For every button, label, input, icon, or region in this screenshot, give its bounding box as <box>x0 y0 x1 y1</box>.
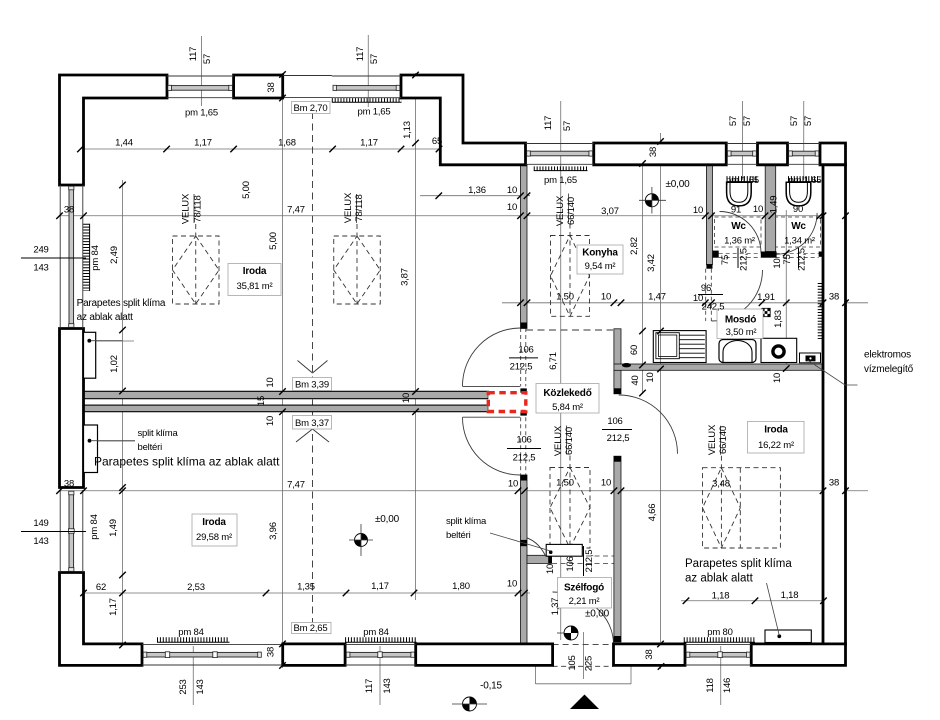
svg-text:106: 106 <box>518 345 533 356</box>
svg-text:Bm 2,65: Bm 2,65 <box>294 623 328 634</box>
svg-text:Wc: Wc <box>731 221 746 232</box>
svg-text:212,5: 212,5 <box>510 362 533 373</box>
svg-text:78/118: 78/118 <box>354 194 365 221</box>
svg-text:1,17: 1,17 <box>360 138 378 149</box>
svg-text:pm 1,65: pm 1,65 <box>185 108 218 119</box>
svg-text:1,44: 1,44 <box>115 138 133 149</box>
svg-text:1,18: 1,18 <box>712 591 730 602</box>
svg-text:143: 143 <box>33 263 48 274</box>
svg-text:pm 84: pm 84 <box>178 627 203 638</box>
svg-text:Bm 3,37: Bm 3,37 <box>295 418 329 429</box>
svg-text:VELUX: VELUX <box>707 424 718 455</box>
svg-text:1,47: 1,47 <box>648 292 666 303</box>
svg-text:Közlekedő: Közlekedő <box>543 388 591 399</box>
svg-text:106: 106 <box>516 435 531 446</box>
svg-text:90: 90 <box>793 204 803 215</box>
svg-text:Mosdó: Mosdó <box>725 315 756 326</box>
svg-text:212,5: 212,5 <box>513 453 536 464</box>
svg-text:elektromos: elektromos <box>864 350 911 361</box>
svg-text:1,83: 1,83 <box>773 310 784 328</box>
svg-text:Iroda: Iroda <box>764 425 788 436</box>
svg-text:60: 60 <box>629 345 640 355</box>
svg-text:15: 15 <box>256 396 267 406</box>
svg-text:beltéri: beltéri <box>446 530 471 541</box>
svg-text:10: 10 <box>507 185 517 196</box>
svg-text:10: 10 <box>601 478 611 489</box>
svg-text:57: 57 <box>728 116 739 126</box>
svg-text:Parapetes split klíma: Parapetes split klíma <box>77 298 166 309</box>
svg-text:65: 65 <box>432 136 442 147</box>
svg-text:1,80: 1,80 <box>452 581 470 592</box>
svg-text:1,50: 1,50 <box>556 478 574 489</box>
svg-text:38: 38 <box>266 82 277 92</box>
svg-text:249: 249 <box>33 245 48 256</box>
svg-text:3,96: 3,96 <box>268 522 279 540</box>
svg-text:6,71: 6,71 <box>548 352 559 370</box>
svg-text:1,17: 1,17 <box>108 598 119 616</box>
svg-text:10: 10 <box>508 479 518 490</box>
svg-text:66/140: 66/140 <box>564 427 575 455</box>
svg-text:106: 106 <box>565 556 576 571</box>
svg-text:16,22 m²: 16,22 m² <box>758 440 794 451</box>
svg-text:10: 10 <box>645 372 656 382</box>
svg-text:10: 10 <box>265 377 276 387</box>
svg-text:10: 10 <box>753 204 763 215</box>
svg-text:29,58 m²: 29,58 m² <box>196 532 232 543</box>
svg-text:2,53: 2,53 <box>187 582 205 593</box>
svg-text:pm 84: pm 84 <box>89 514 100 539</box>
svg-text:10: 10 <box>693 293 703 304</box>
svg-text:pm 1,65: pm 1,65 <box>789 175 822 186</box>
svg-text:40: 40 <box>630 375 641 385</box>
svg-text:VELUX: VELUX <box>553 425 564 456</box>
svg-text:vízmelegítő: vízmelegítő <box>864 364 914 375</box>
svg-text:10: 10 <box>772 373 783 383</box>
svg-text:1,49: 1,49 <box>108 519 119 537</box>
svg-text:149: 149 <box>33 518 48 529</box>
svg-text:Iroda: Iroda <box>202 517 226 528</box>
svg-text:1,17: 1,17 <box>194 138 212 149</box>
svg-text:57: 57 <box>742 116 753 126</box>
svg-text:7,47: 7,47 <box>287 205 305 216</box>
svg-text:1,35: 1,35 <box>297 582 315 593</box>
svg-text:10: 10 <box>265 416 276 426</box>
svg-text:Szélfogó: Szélfogó <box>564 583 604 594</box>
svg-text:1,49: 1,49 <box>769 196 780 214</box>
svg-text:10: 10 <box>601 292 611 303</box>
svg-text:pm 1,65: pm 1,65 <box>358 107 391 118</box>
svg-text:38: 38 <box>266 647 277 657</box>
svg-text:pm 80: pm 80 <box>707 627 732 638</box>
svg-text:split klíma: split klíma <box>446 516 487 527</box>
svg-text:1,02: 1,02 <box>109 355 120 373</box>
svg-text:Parapetes split klíma az ablak: Parapetes split klíma az ablak alatt <box>94 455 280 469</box>
svg-text:242,5: 242,5 <box>702 302 725 313</box>
svg-text:-0,15: -0,15 <box>480 681 502 692</box>
svg-text:57: 57 <box>789 116 800 126</box>
svg-text:±0,00: ±0,00 <box>585 609 610 620</box>
svg-text:Wc: Wc <box>791 221 806 232</box>
svg-text:57: 57 <box>369 54 380 64</box>
svg-text:2,49: 2,49 <box>109 246 120 264</box>
svg-text:Bm 3,39: Bm 3,39 <box>295 380 329 391</box>
svg-text:1,17: 1,17 <box>371 581 389 592</box>
svg-text:10: 10 <box>693 205 703 216</box>
svg-text:VELUX: VELUX <box>555 195 566 226</box>
svg-text:pm 1,65: pm 1,65 <box>726 175 759 186</box>
svg-text:10: 10 <box>401 393 412 403</box>
svg-text:Konyha: Konyha <box>582 248 618 259</box>
svg-text:38: 38 <box>829 478 839 489</box>
svg-text:143: 143 <box>195 679 206 694</box>
svg-text:±0,00: ±0,00 <box>666 179 691 190</box>
svg-text:66/140: 66/140 <box>718 426 729 454</box>
svg-text:38: 38 <box>648 147 659 157</box>
svg-text:66/140: 66/140 <box>566 197 577 225</box>
svg-text:split klíma: split klíma <box>138 428 179 439</box>
svg-text:143: 143 <box>382 678 393 693</box>
svg-text:212,5: 212,5 <box>797 248 808 271</box>
svg-text:117: 117 <box>364 679 375 694</box>
svg-text:38: 38 <box>829 292 839 303</box>
svg-text:1,91: 1,91 <box>757 292 775 303</box>
svg-text:105: 105 <box>567 655 578 670</box>
svg-text:143: 143 <box>33 536 48 547</box>
svg-text:117: 117 <box>188 47 199 62</box>
svg-text:10: 10 <box>507 202 517 213</box>
svg-text:57: 57 <box>803 116 814 126</box>
svg-text:117: 117 <box>355 47 366 62</box>
svg-text:3,50 m²: 3,50 m² <box>726 327 757 338</box>
svg-text:1,13: 1,13 <box>402 121 413 139</box>
svg-text:1,36: 1,36 <box>468 185 486 196</box>
svg-text:Iroda: Iroda <box>243 266 267 277</box>
svg-text:1,36 m²: 1,36 m² <box>724 236 755 247</box>
svg-text:253: 253 <box>178 679 189 694</box>
svg-text:38: 38 <box>644 649 655 659</box>
svg-text:35,81 m²: 35,81 m² <box>237 281 273 292</box>
svg-text:2,82: 2,82 <box>629 237 640 255</box>
svg-text:5,84 m²: 5,84 m² <box>552 402 583 413</box>
svg-text:3,87: 3,87 <box>400 268 411 286</box>
svg-text:Parapetes split klíma: Parapetes split klíma <box>685 558 792 570</box>
svg-text:57: 57 <box>202 54 213 64</box>
svg-text:2,21 m²: 2,21 m² <box>569 596 600 607</box>
svg-text:75: 75 <box>782 254 793 264</box>
svg-text:7,47: 7,47 <box>287 480 305 491</box>
svg-text:5,00: 5,00 <box>268 232 279 250</box>
svg-text:10: 10 <box>507 579 517 590</box>
svg-text:pm 84: pm 84 <box>90 245 101 270</box>
svg-text:5,00: 5,00 <box>241 181 252 199</box>
svg-text:212,5: 212,5 <box>607 433 630 444</box>
svg-text:1,37: 1,37 <box>550 598 561 616</box>
svg-text:10: 10 <box>545 564 556 574</box>
svg-text:±0,00: ±0,00 <box>375 514 400 525</box>
svg-text:9,54 m²: 9,54 m² <box>585 261 616 272</box>
svg-text:1,50: 1,50 <box>556 292 574 303</box>
svg-text:az ablak alatt: az ablak alatt <box>685 573 754 585</box>
svg-text:VELUX: VELUX <box>343 192 354 223</box>
svg-text:pm 1,65: pm 1,65 <box>544 175 577 186</box>
svg-text:225: 225 <box>584 656 595 671</box>
svg-text:118: 118 <box>705 678 716 693</box>
svg-text:1,68: 1,68 <box>278 138 296 149</box>
svg-text:212,5: 212,5 <box>739 248 750 271</box>
svg-text:38: 38 <box>64 205 74 216</box>
svg-text:212,5: 212,5 <box>584 550 595 573</box>
svg-text:62: 62 <box>96 582 106 593</box>
svg-text:106: 106 <box>607 416 622 427</box>
svg-text:pm 84: pm 84 <box>363 627 388 638</box>
svg-text:91: 91 <box>731 205 741 216</box>
svg-text:78/118: 78/118 <box>193 195 204 222</box>
svg-text:38: 38 <box>64 479 74 490</box>
svg-text:117: 117 <box>543 116 554 131</box>
svg-text:Bm 2,70: Bm 2,70 <box>294 103 328 114</box>
svg-text:3,42: 3,42 <box>646 254 657 272</box>
svg-text:1,18: 1,18 <box>781 590 799 601</box>
svg-text:az ablak alatt: az ablak alatt <box>77 312 134 323</box>
svg-text:75: 75 <box>720 255 731 265</box>
svg-text:146: 146 <box>722 678 733 693</box>
svg-text:4,66: 4,66 <box>647 504 658 522</box>
svg-text:3,07: 3,07 <box>601 206 619 217</box>
svg-text:beltéri: beltéri <box>138 442 163 453</box>
svg-text:1,34 m²: 1,34 m² <box>784 236 815 247</box>
svg-text:3,48: 3,48 <box>712 479 730 490</box>
svg-text:57: 57 <box>562 121 573 131</box>
svg-text:VELUX: VELUX <box>181 193 192 224</box>
